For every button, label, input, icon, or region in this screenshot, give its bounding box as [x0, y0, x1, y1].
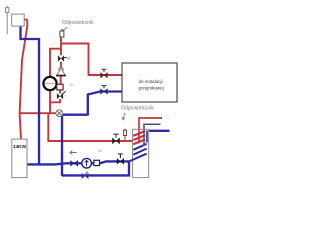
svg-text:do instalacji: do instalacji [138, 79, 162, 84]
strainer square on blue return line [94, 160, 100, 165]
wire: red supply branch right to radiator box [61, 44, 122, 76]
wire: blue return main line from boiler right side to tank valve [27, 161, 129, 164]
air vent on tank red line [124, 129, 127, 140]
wire: blue vertical drop from mixing node down through lines [61, 115, 63, 176]
wire: blue from expansion vessel bottom down then right then down to boiler return [21, 26, 40, 165]
pump P2 on blue return line [82, 158, 92, 168]
boiler 14KW [12, 139, 27, 178]
valve with handle near tank on blue line [117, 158, 124, 165]
circulation pump P1 [43, 77, 56, 90]
valve on red line to tank coil [112, 138, 120, 145]
wire: navy pipe stub inside tank from top [143, 130, 145, 147]
wire: red riser from expansion vessel slanting down to boiler top [20, 20, 28, 140]
strainer square on riser [57, 84, 63, 90]
arrow to tank air vent [122, 113, 125, 120]
wire: red below pump down to junction [49, 90, 51, 113]
wire: blue return from radiator box left then down [88, 92, 122, 116]
wire: blue horizontal from mixing circle right to radiator-return drop [62, 114, 88, 116]
hot water tank with coil [133, 129, 149, 177]
svg-text:M: M [67, 56, 71, 61]
valve on red supply to radiator box [100, 72, 107, 78]
coil red strokes in tank [133, 131, 145, 144]
svg-text:grzejnikowej: grzejnikowej [138, 85, 163, 90]
wire: blue top outlet of tank going right [147, 130, 170, 132]
wire: blue stub from tank top pipe down to coil [146, 131, 148, 143]
wire: red top outlet of tank up and right [139, 118, 162, 143]
svg-text:14KW: 14KW [13, 144, 26, 150]
air vent on expansion vessel [6, 6, 9, 35]
wire: red between motor valve and safety valve [60, 62, 62, 67]
wire: red down branch to domestic tank line [48, 113, 133, 141]
wire: red from lever valve down and jog left to pump line [50, 99, 60, 102]
motorized valve M on riser [58, 55, 64, 61]
svg-text:Odpowietrznik: Odpowietrznik [62, 20, 94, 26]
wire: red branch left to pump column [50, 49, 61, 77]
wire: red stub from expansion vessel right edge [24, 19, 27, 21]
expansion vessel [12, 14, 25, 26]
wire: red riser below air vent (main supply column) [60, 37, 62, 55]
valve on blue return from radiator box [100, 88, 107, 94]
valve on blue return line (left of pump) [70, 160, 78, 167]
mixing circle node [56, 110, 63, 117]
wire: red between strainer square and lever valve [59, 90, 61, 94]
arrow to top air vent [61, 27, 67, 33]
svg-text:f: f [65, 94, 66, 98]
wire: navy middle outlet of tank up and right [144, 124, 161, 146]
safety valve (triangle with cap) [56, 67, 66, 75]
lever valve on riser [57, 93, 63, 99]
coil blue strokes in tank [129, 144, 147, 162]
air vent on main riser [60, 29, 64, 37]
wire: red horizontal branch at y113 to mixing circle [20, 112, 57, 114]
wire: blue cold-water lower line from node at x62 to tank down-leg [62, 161, 129, 175]
wire: red between safety valve and strainer square [60, 76, 62, 84]
radiator installation box [122, 63, 177, 102]
svg-text:Odpowietrznik: Odpowietrznik [121, 106, 154, 112]
valve on lower blue line [82, 173, 89, 179]
flow arrow on cold water line [70, 151, 77, 155]
wire: red pipe stub inside tank from top [138, 130, 140, 144]
